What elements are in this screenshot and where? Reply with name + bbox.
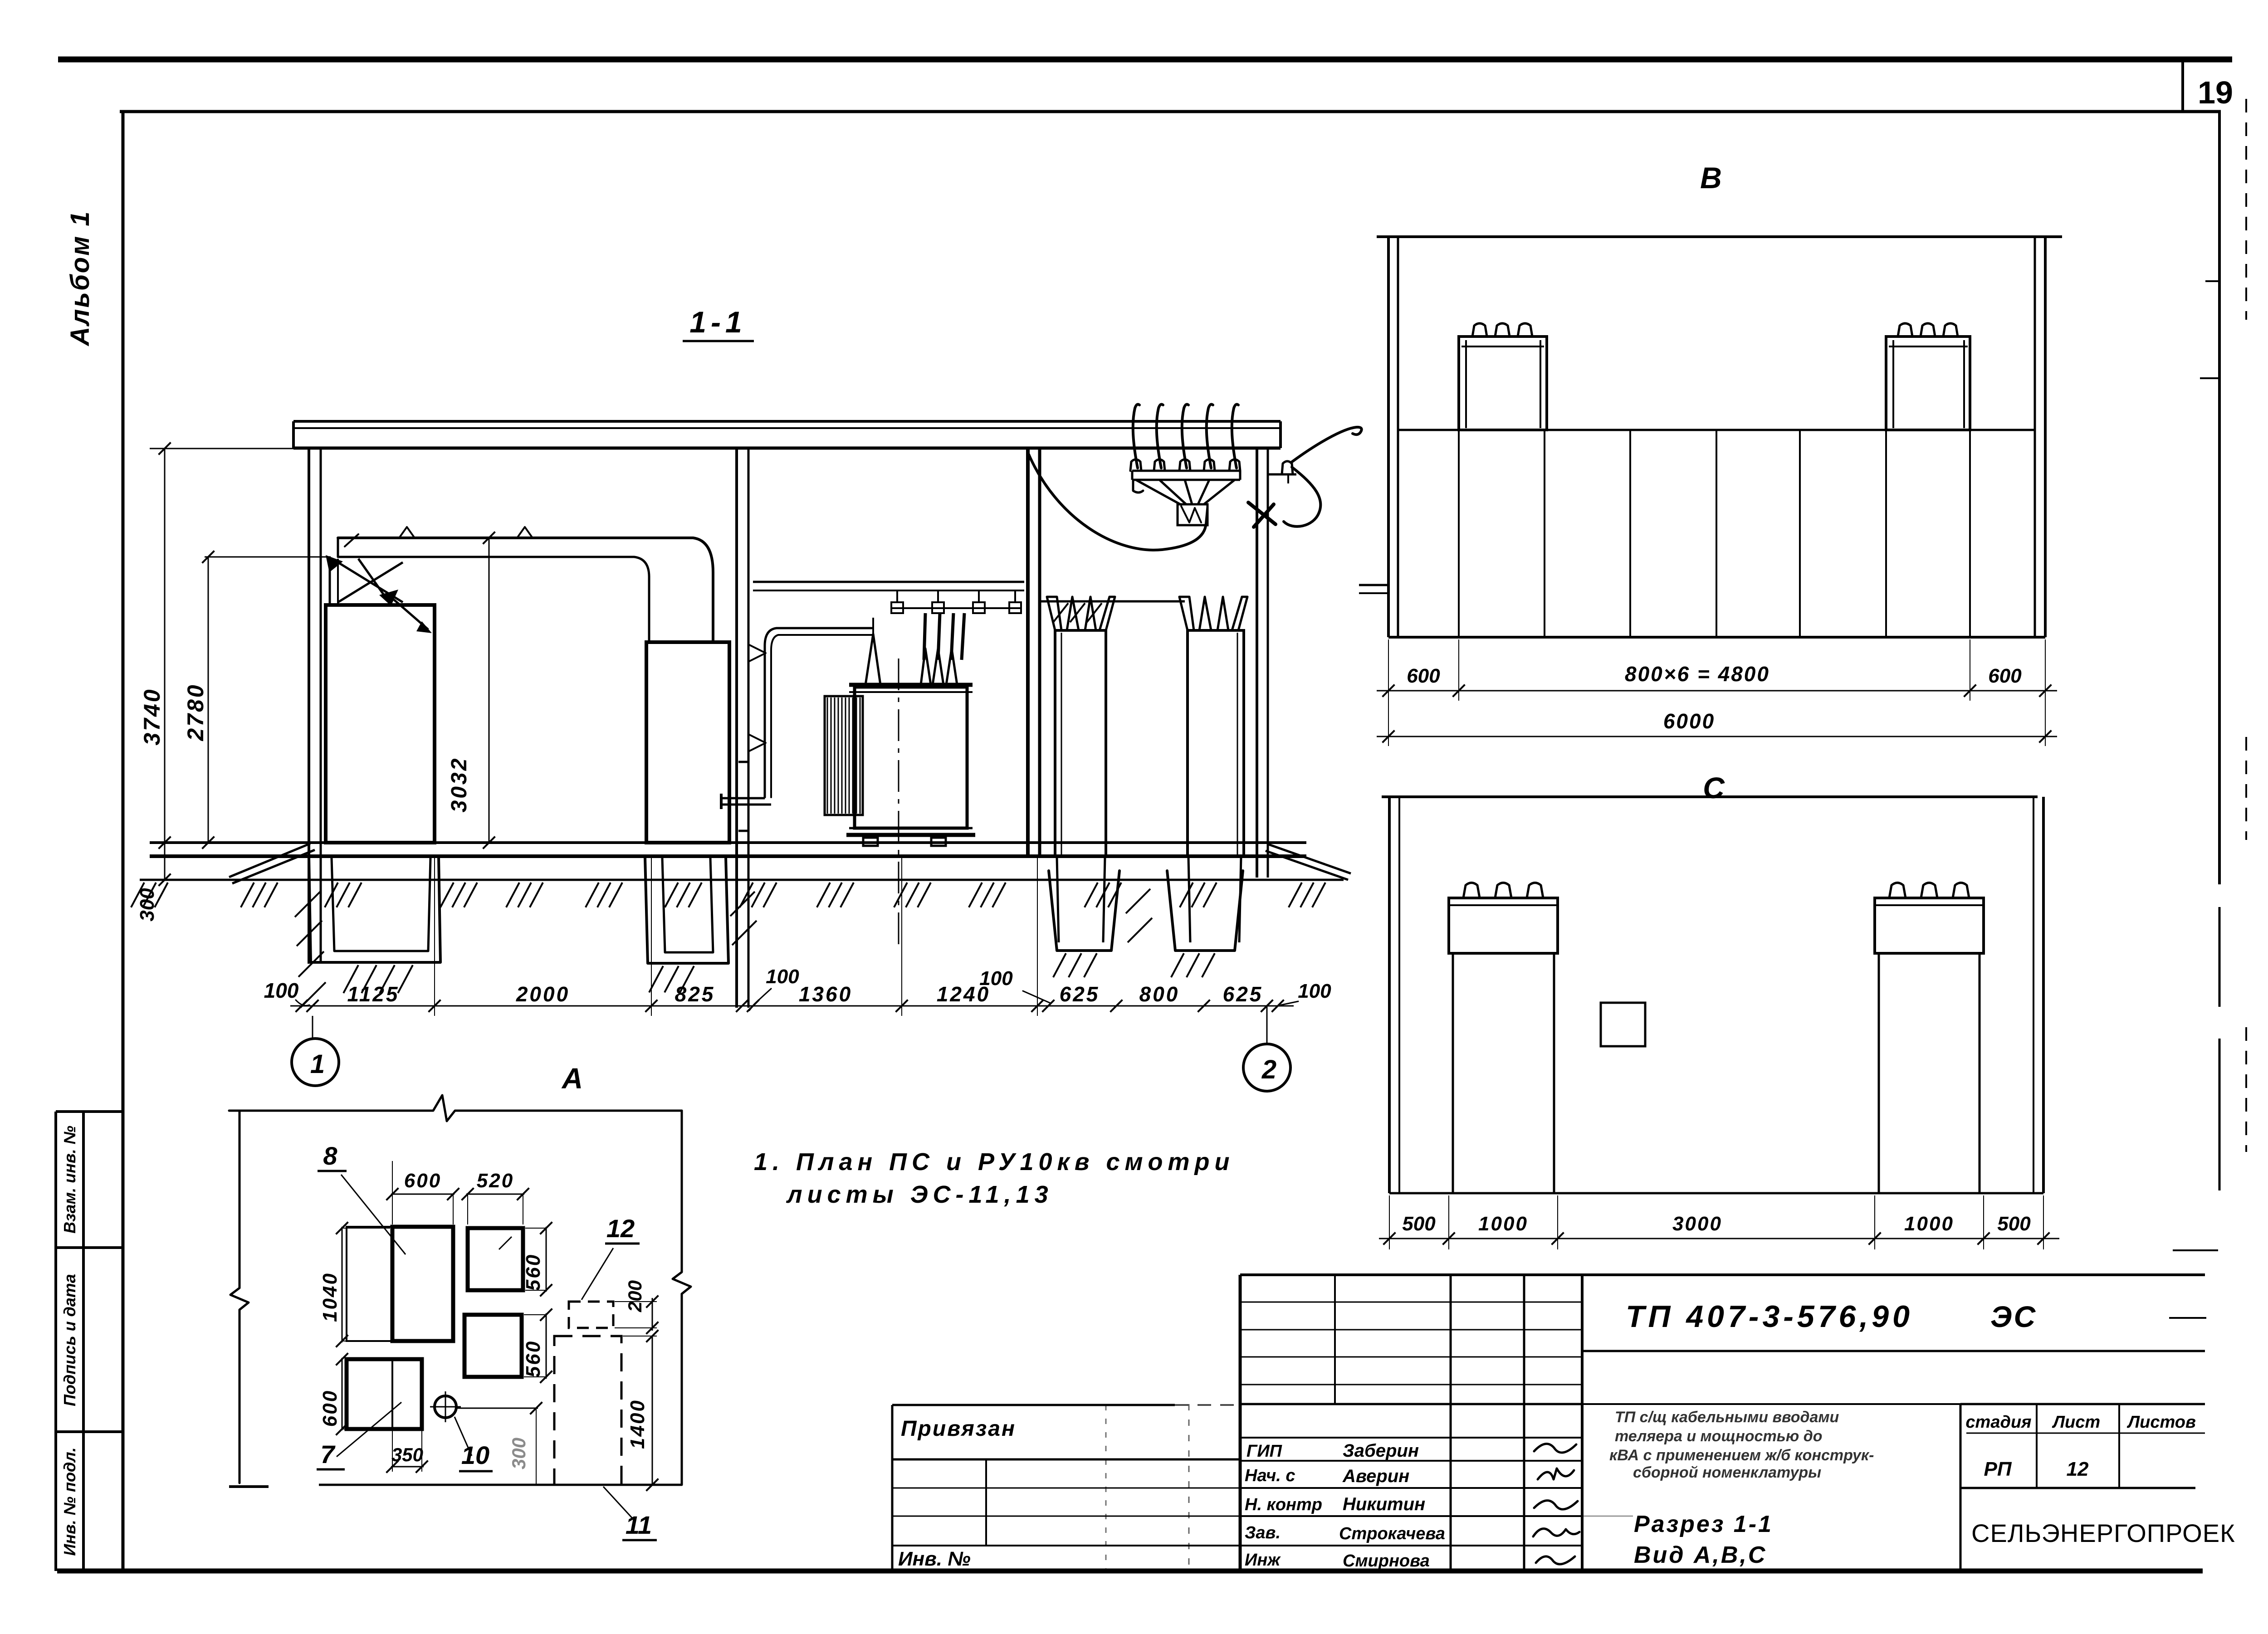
transformer centre line — [898, 658, 899, 948]
svg-text:6000: 6000 — [1663, 709, 1715, 733]
svg-text:560: 560 — [522, 1254, 544, 1291]
drawing frame left — [122, 112, 125, 1572]
svg-text:С: С — [1703, 771, 1725, 805]
left margin inventory strip — [54, 1112, 57, 1571]
ceiling beam of transformer cell — [753, 581, 1024, 583]
roof slab — [293, 420, 1281, 423]
svg-text:300: 300 — [508, 1438, 529, 1469]
svg-text:сборной номенклатуры: сборной номенклатуры — [1633, 1464, 1821, 1481]
bottom dimension line — [290, 1005, 1294, 1007]
view C wall opening — [1601, 1003, 1645, 1046]
earthing rod 10 — [435, 1396, 456, 1418]
svg-text:Строкачева: Строкачева — [1339, 1524, 1445, 1543]
svg-text:350: 350 — [391, 1444, 423, 1465]
detail A boundary right — [673, 1111, 691, 1485]
left entrance ramp — [229, 844, 310, 877]
svg-text:Лист: Лист — [2052, 1413, 2100, 1432]
svg-text:Инж: Инж — [1245, 1551, 1281, 1570]
svg-text:500: 500 — [1402, 1213, 1436, 1235]
svg-text:1040: 1040 — [319, 1272, 341, 1322]
svg-text:Листов: Листов — [2126, 1413, 2196, 1432]
view C dimension line — [1379, 1238, 2059, 1239]
svg-text:Разрез 1-1: Разрез 1-1 — [1634, 1511, 1773, 1537]
stage/sheet table — [1960, 1404, 1962, 1571]
pole bracket with insulator — [1268, 473, 1296, 476]
detail A foundation 7 — [347, 1359, 422, 1429]
corridor bus bar right of partition — [1040, 600, 1185, 603]
view B dimension line 600 / 800x6 / 600 — [1377, 690, 2057, 692]
transformer rail pedestal 2 — [1188, 630, 1244, 856]
drawing frame right — [2218, 112, 2221, 884]
svg-text:1. План ПС и РУ10кв смотри: 1. План ПС и РУ10кв смотри — [754, 1148, 1234, 1176]
extension lines — [434, 858, 435, 1016]
detail A dim 1040 — [342, 1227, 343, 1342]
svg-text:800: 800 — [1139, 982, 1180, 1006]
svg-text:560: 560 — [522, 1340, 544, 1377]
svg-text:100: 100 — [1298, 980, 1331, 1002]
cable duct at transformer cell — [765, 628, 872, 797]
svg-text:В: В — [1700, 161, 1722, 195]
svg-text:Вид А,В,С: Вид А,В,С — [1634, 1542, 1767, 1568]
switchgear cabinet 1 — [326, 605, 435, 843]
view B panel joints — [1458, 430, 1460, 637]
attachment box Привязан — [892, 1404, 1175, 1406]
outer dashed right margin line — [2245, 99, 2247, 320]
axis circle 1 — [292, 1039, 339, 1086]
overhead line wires above roof — [1133, 405, 1139, 468]
view C left wall — [1388, 797, 1391, 1193]
transformer radiator — [825, 696, 863, 815]
view B vent stack 1 — [1459, 337, 1547, 430]
view B overall dimension 6000 — [1377, 736, 2057, 737]
view C stack 2 — [1875, 898, 1984, 953]
axis circle 2 — [1243, 1044, 1290, 1091]
svg-text:Альбом 1: Альбом 1 — [65, 210, 95, 346]
signature table lower rows — [1240, 1437, 1582, 1439]
svg-text:600: 600 — [1407, 665, 1440, 687]
svg-text:Взам. инв. №: Взам. инв. № — [60, 1126, 79, 1234]
svg-text:100: 100 — [979, 967, 1013, 990]
svg-text:1125: 1125 — [347, 982, 400, 1006]
right entrance ramp — [1269, 844, 1351, 873]
svg-text:625: 625 — [1223, 982, 1263, 1006]
ground line — [140, 879, 1344, 881]
svg-text:СЕЛЬЭНЕРГОПРОЕК: СЕЛЬЭНЕРГОПРОЕК — [1971, 1519, 2235, 1547]
svg-text:8: 8 — [323, 1141, 337, 1170]
svg-text:2780: 2780 — [183, 683, 208, 741]
view B left wall — [1387, 237, 1390, 637]
bus supports with insulators — [891, 607, 1021, 609]
svg-text:ЭС: ЭС — [1990, 1300, 2037, 1333]
svg-text:Никитин: Никитин — [1343, 1494, 1425, 1514]
svg-text:ГИП: ГИП — [1246, 1442, 1282, 1461]
detail A boundary bottom — [319, 1484, 682, 1486]
svg-text:1000: 1000 — [1478, 1213, 1528, 1235]
svg-text:520: 520 — [477, 1170, 514, 1192]
svg-text:Н. контр: Н. контр — [1245, 1495, 1322, 1514]
detail A dim 200 — [652, 1298, 653, 1331]
svg-text:3740: 3740 — [139, 688, 165, 745]
svg-text:Привязан: Привязан — [901, 1417, 1016, 1441]
cable duct over switchgear — [338, 538, 713, 642]
svg-text:теляера и мощностью до: теляера и мощностью до — [1615, 1428, 1823, 1445]
svg-text:625: 625 — [1060, 982, 1100, 1006]
svg-text:1000: 1000 — [1904, 1213, 1954, 1235]
svg-text:100: 100 — [766, 966, 799, 988]
dimension 3032 — [489, 538, 490, 843]
svg-text:200: 200 — [624, 1280, 645, 1312]
detail A dim 600 left — [342, 1358, 343, 1430]
dimension 300 — [164, 843, 166, 880]
detail A foundation square top — [468, 1228, 523, 1290]
switchgear cabinet 2 — [646, 642, 729, 843]
detail A dim 300 (faint) — [456, 1408, 538, 1409]
svg-text:2000: 2000 — [516, 982, 570, 1006]
wall post axis 2 (right) — [1256, 448, 1258, 878]
svg-text:19: 19 — [2198, 75, 2233, 110]
svg-text:Инв. № подл.: Инв. № подл. — [60, 1447, 79, 1556]
svg-text:А: А — [561, 1062, 583, 1095]
cable funnel — [1136, 480, 1180, 504]
jumper wire to line — [1291, 427, 1362, 463]
svg-text:Зав.: Зав. — [1245, 1523, 1281, 1542]
stray scan lines right margin — [2200, 377, 2219, 379]
svg-text:РП: РП — [1984, 1458, 2012, 1480]
transformer rail pedestal 1 — [1055, 630, 1106, 856]
svg-text:листы ЭС-11,13: листы ЭС-11,13 — [786, 1181, 1053, 1208]
detail A dim 1400 — [652, 1336, 653, 1485]
detail A dim 560 lower — [546, 1313, 547, 1379]
detail A dim 600 top — [391, 1194, 455, 1195]
sheet number tick — [2181, 59, 2184, 110]
view C stack 1 — [1449, 898, 1558, 953]
svg-text:825: 825 — [675, 982, 715, 1006]
svg-text:Заберин: Заберин — [1343, 1441, 1419, 1461]
svg-text:Смирнова: Смирнова — [1343, 1551, 1430, 1571]
transformer tank — [855, 687, 967, 828]
detail A foundation 8 — [347, 1227, 392, 1341]
floor slab — [150, 841, 1306, 844]
svg-text:10: 10 — [461, 1441, 489, 1469]
partition post (cabinet/transformer) — [735, 448, 738, 1008]
foundation pit 3 (pedestal) — [1049, 871, 1119, 951]
svg-text:500: 500 — [1997, 1213, 2031, 1235]
svg-text:1360: 1360 — [799, 982, 852, 1006]
lead-in insulators — [1130, 459, 1141, 471]
sag wire inside — [1028, 454, 1206, 550]
view B right wall — [2034, 237, 2036, 637]
svg-text:ТП 407-3-576,90: ТП 407-3-576,90 — [1626, 1299, 1913, 1334]
svg-text:800×6 = 4800: 800×6 = 4800 — [1625, 662, 1770, 686]
cable trench 11 (dashed) — [554, 1336, 621, 1485]
drawing frame bottom — [57, 1569, 2203, 1574]
svg-text:12: 12 — [606, 1214, 635, 1243]
transformer HV bushings — [865, 634, 880, 685]
svg-text:кВА с применением ж/б конструк: кВА с применением ж/б конструк- — [1609, 1447, 1874, 1464]
bracket on view B outer wall — [1359, 584, 1388, 586]
svg-text:600: 600 — [1988, 665, 2022, 687]
view B bottom line — [1388, 636, 2045, 639]
svg-text:12: 12 — [2067, 1458, 2089, 1480]
foundation pit axis 1 — [309, 857, 440, 962]
svg-text:стадия: стадия — [1965, 1413, 2031, 1432]
detail A dim 350 — [391, 1466, 424, 1468]
signature table verticals — [1239, 1275, 1242, 1571]
svg-text:1400: 1400 — [626, 1399, 649, 1449]
cable bracket over cabinet 1 — [329, 559, 331, 605]
view B panel top line — [1398, 429, 2035, 431]
svg-text:1: 1 — [310, 1049, 325, 1079]
dimension 2780 — [205, 556, 331, 558]
signature table upper rows — [1240, 1302, 1582, 1303]
title block top edge — [1240, 1273, 2205, 1276]
foundation pit 4 (pedestal) — [1167, 871, 1243, 951]
view B roof line — [1377, 235, 2062, 238]
svg-text:7: 7 — [320, 1440, 336, 1468]
detail A foundation square mid — [464, 1315, 522, 1377]
svg-text:3032: 3032 — [447, 757, 471, 813]
svg-text:Аверин: Аверин — [1342, 1466, 1409, 1486]
svg-text:Нач. с: Нач. с — [1245, 1466, 1295, 1485]
lead-in crossarm — [1132, 470, 1240, 472]
svg-text:3000: 3000 — [1672, 1213, 1722, 1235]
wall post axis 1 (left) — [308, 448, 310, 964]
svg-text:1-1: 1-1 — [689, 305, 746, 339]
detail A dim 560 upper — [546, 1227, 547, 1292]
detail A boundary top — [229, 1095, 682, 1121]
svg-text:Инв. №: Инв. № — [898, 1548, 971, 1570]
view B vent stack 2 — [1886, 337, 1970, 430]
view C bottom line — [1389, 1192, 2043, 1195]
svg-text:Подпись и дата: Подпись и дата — [60, 1274, 79, 1406]
svg-text:600: 600 — [319, 1390, 341, 1427]
top binding rule — [58, 57, 2232, 63]
view C right wall — [2033, 797, 2034, 1193]
transformer base — [849, 827, 973, 829]
foundation pit 2 — [645, 857, 728, 963]
anchor plate on pole — [1248, 502, 1276, 524]
signatures — [1534, 1444, 1576, 1453]
svg-text:100: 100 — [264, 979, 299, 1002]
svg-text:ТП с/щ кабельными вводами: ТП с/щ кабельными вводами — [1615, 1409, 1839, 1426]
drawing frame top — [120, 110, 2221, 113]
detail A dim 520 — [466, 1194, 524, 1195]
svg-text:300: 300 — [136, 888, 158, 922]
svg-text:600: 600 — [404, 1170, 441, 1192]
view C roof line — [1382, 795, 2038, 798]
faint dashed construction vertical — [1188, 1404, 1190, 1571]
svg-text:2: 2 — [1261, 1055, 1276, 1084]
dimension 3740 — [150, 448, 299, 449]
detail A boundary left — [230, 1111, 249, 1483]
cable trench 12 (dashed) — [569, 1302, 613, 1328]
ground hatching — [131, 883, 144, 907]
partition post (transformer/pedestal bay) — [1026, 448, 1030, 856]
